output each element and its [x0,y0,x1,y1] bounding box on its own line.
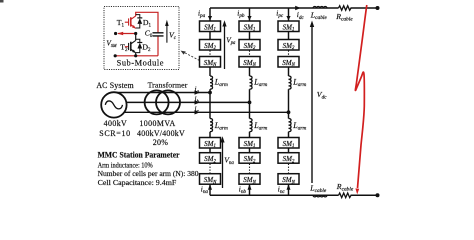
transistor T1 (IGBT, red) [125,16,136,29]
submodule SMN (phase a upper) [200,57,221,68]
svg-text:400kV: 400kV [104,119,127,128]
node: phase b junction [248,101,252,105]
node: lower output terminal [114,54,117,57]
resistor R_cable (top) [339,6,352,11]
node: emitter-rail junction [134,54,137,57]
submodule SM1 (phase a upper) [200,21,221,32]
wire: dashed between SM2 and SMN (b upper) [249,51,251,57]
node: midpoint junction [134,32,137,35]
node: bottom bus end [376,193,380,197]
current arrow ipa [208,16,212,20]
capacitor C0 plates [153,33,164,36]
node: phase c junction [287,110,291,114]
submodule SM2 (phase c lower) [278,153,299,164]
svg-text:400kV/400kV: 400kV/400kV [137,129,185,138]
submodule SM2 (phase a upper) [200,40,221,51]
current arrow inc [287,184,291,189]
submodule SMN (phase a lower) [200,174,221,185]
inductor L_arm (b lower) [250,119,253,132]
wire: leg a upper [209,8,211,195]
svg-text:1000MVA: 1000MVA [139,119,175,128]
svg-text:SCR=10: SCR=10 [99,129,131,138]
AC source sine wave [105,101,122,109]
submodule SM2 (phase b upper) [239,40,260,51]
submodule SMN (phase c upper) [278,57,299,68]
current arrow inb [248,184,252,189]
wire: dashed between SM2 and SMN (c lower) [288,164,290,174]
phase line c [124,111,289,113]
submodule SMN (phase b upper) [239,57,260,68]
wire: midpoint to T2 collector (black) [135,34,137,41]
submodule SM2 (phase b lower) [239,153,260,164]
inductor L_cable (top) [313,6,327,8]
inductor L_cable (bottom) [313,195,327,197]
node: phase a junction [208,91,212,95]
svg-text:Number of cells per arm (N): 3: Number of cells per arm (N): 380 [98,169,199,178]
diode D1 (black) [136,15,140,28]
svg-text:MMC Station Parameter: MMC Station Parameter [98,150,180,160]
submodule SM1 (phase b upper) [239,21,260,32]
inductor L_arm (b upper) [250,76,253,89]
AC source circle [101,92,126,117]
DC cable (red curve) [355,5,366,188]
current arrow ipc [286,16,290,20]
wire: top rail (red) collector to capacitor [136,12,158,32]
submodule SM1 (phase c upper) [278,21,299,32]
submodule SM1 (phase b lower) [239,138,260,149]
svg-text:20%: 20% [153,138,169,147]
inductor L_arm (c lower) [289,119,292,132]
current arrow ipb [247,16,251,20]
svg-text:Cell Capacitance: 9.4mF: Cell Capacitance: 9.4mF [98,178,177,187]
wire: dashed between SM2 and SMN (a lower) [209,164,211,174]
phase line a [117,92,210,94]
node: top bus end [376,6,380,10]
transformer circle right [156,90,180,114]
submodule SMN (phase b lower) [239,174,260,185]
wire: dashed between SM2 and SMN (a upper) [209,51,211,57]
phase line b [120,101,250,103]
voltage arrow Vna [222,141,224,189]
wire: capacitor bottom to bottom rail (red) [157,36,159,56]
voltage arrow Vc [166,26,168,43]
voltage arrow Vdc [311,25,313,183]
transformer circle left [145,90,169,114]
wire: bottom DC bus [210,194,378,196]
wire: top DC bus [210,7,378,9]
current arrow idc on top bus [295,6,300,10]
svg-text:AC System: AC System [96,81,134,90]
current arrow ia [195,90,201,94]
submodule SM2 (phase a lower) [200,153,221,164]
current arrow ic [195,110,201,114]
inductor L_arm (a upper) [210,76,213,89]
wire: midpoint output (red) with left arrowhead [118,33,136,35]
voltage arrow Vpa [224,25,226,70]
resistor R_cable (bottom) [339,193,352,198]
submodule SMN (phase c lower) [278,174,299,185]
node: upper output terminal [114,32,117,35]
diode D2 (black) [136,39,140,52]
inductor L_arm (a lower) [210,119,213,132]
current arrow ib [195,100,201,104]
submodule SM1 (phase a lower) [200,138,221,149]
inductor L_arm (c upper) [289,76,292,89]
svg-text:Transformer: Transformer [148,81,188,90]
wire: leg c [288,8,290,195]
wire: bottom rail (red) [115,55,158,57]
sub-module inset dashed border [104,7,179,70]
wire: leg b [249,8,251,195]
transistor T2 (IGBT, black with red gate lead) [125,46,129,48]
wire: dashed between SM2 and SMN (b lower) [249,164,251,174]
submodule SM2 (phase c upper) [278,40,299,51]
current arrow ina [208,184,212,189]
submodule SM1 (phase c lower) [278,138,299,149]
svg-text:Sub-Module: Sub-Module [117,58,164,67]
dashed pointer arrow from SMN box to inset [183,52,200,61]
wire: dashed between SM2 and SMN (c upper) [288,51,290,57]
corner speck [0,0,4,3]
